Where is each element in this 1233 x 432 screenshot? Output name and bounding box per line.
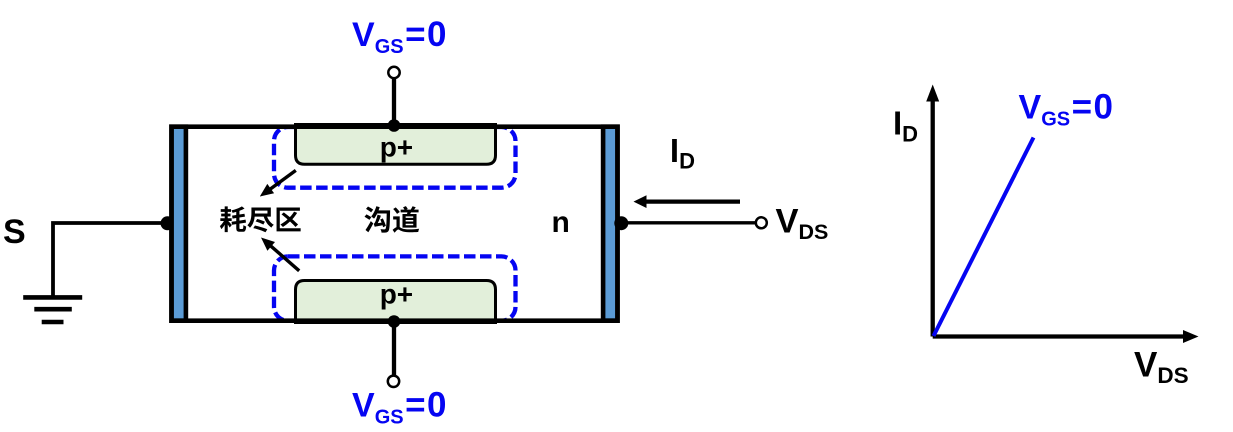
svg-text:S: S: [3, 213, 26, 251]
svg-text:p+: p+: [380, 132, 413, 163]
label 沟道 (channel): [365, 206, 420, 233]
gate terminal top: node dot: [388, 119, 401, 132]
gate terminal bottom: wire: [392, 322, 396, 378]
body outline: [172, 127, 618, 321]
open terminal VDS: [756, 217, 767, 228]
gate terminal bottom: open terminal: [388, 376, 399, 387]
p+ gate region bottom: [296, 281, 496, 323]
svg-text:p+: p+: [380, 279, 413, 310]
wire drain-to-VDS: [621, 221, 756, 224]
p+ gate region top: [296, 125, 496, 165]
n-type body: [172, 127, 618, 321]
drain contact bar (blue): [603, 127, 617, 321]
svg-text:n: n: [552, 206, 570, 239]
ground: [23, 297, 82, 322]
depletion region top (dashed): [274, 127, 516, 188]
gate terminal top: open terminal: [388, 67, 399, 78]
graph x-axis: [933, 330, 1199, 343]
wire source-to-body: [53, 223, 168, 296]
label 耗尽区 (depletion region): [220, 206, 301, 232]
gate terminal top: wire: [392, 76, 396, 126]
node source junction: [161, 216, 175, 230]
gate terminal bottom: node dot: [388, 315, 401, 328]
graph y-axis: [926, 85, 939, 337]
node drain junction: [614, 216, 628, 230]
annotation arrow to depletion bottom: [261, 238, 299, 271]
I-V curve (VGS=0): [934, 138, 1034, 337]
source contact bar (blue): [172, 127, 186, 321]
current arrow ID: [634, 195, 741, 208]
annotation arrow to depletion top: [260, 170, 296, 196]
depletion region bottom (dashed): [274, 256, 516, 320]
